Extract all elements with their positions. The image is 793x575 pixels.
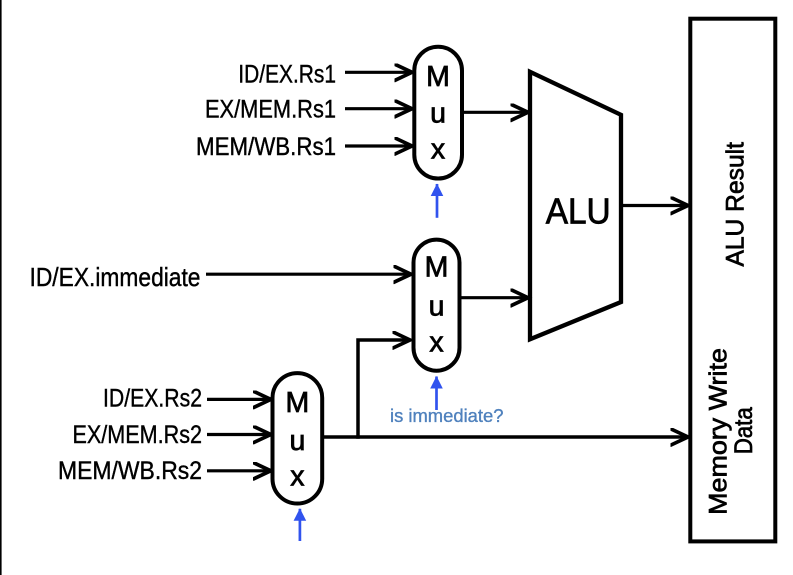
left edge border line <box>0 0 2 575</box>
svg-text:Data: Data <box>730 407 758 454</box>
svg-text:is immediate?: is immediate? <box>390 405 504 426</box>
svg-text:u: u <box>430 98 446 130</box>
wire arrow ID/EX.Rs2 to Mux3 <box>207 398 271 401</box>
svg-text:M: M <box>426 61 450 93</box>
svg-text:x: x <box>290 461 304 493</box>
wire arrow ID/EX.Rs1 to Mux1 <box>345 71 412 74</box>
svg-text:M: M <box>286 387 310 419</box>
svg-text:EX/MEM.Rs1: EX/MEM.Rs1 <box>205 96 336 124</box>
Mux2 (middle) <box>414 240 460 371</box>
svg-text:EX/MEM.Rs2: EX/MEM.Rs2 <box>73 421 203 449</box>
svg-text:ID/EX.Rs1: ID/EX.Rs1 <box>238 60 336 88</box>
svg-text:M: M <box>425 252 449 284</box>
svg-text:u: u <box>429 291 445 323</box>
svg-text:x: x <box>431 134 445 166</box>
blue select arrow under Mux3 <box>299 509 302 541</box>
ALU trapezoid <box>530 72 621 340</box>
wire arrow MEM/WB.Rs2 to Mux3 <box>207 469 271 472</box>
wire Mux3 output to memory write data <box>324 435 688 439</box>
wire arrow ALU to result register <box>623 204 688 207</box>
wire arrow MEM/WB.Rs1 to Mux1 <box>345 144 412 147</box>
svg-text:ID/EX.Rs2: ID/EX.Rs2 <box>103 385 202 413</box>
svg-text:ID/EX.immediate: ID/EX.immediate <box>30 262 201 292</box>
wire arrow EX/MEM.Rs1 to Mux1 <box>345 107 412 110</box>
Mux3 (bottom) <box>273 373 323 503</box>
svg-text:MEM/WB.Rs1: MEM/WB.Rs1 <box>196 133 336 161</box>
wire elbow from Mux3 output up to Mux2 input <box>358 340 410 439</box>
svg-text:MEM/WB.Rs2: MEM/WB.Rs2 <box>58 457 202 485</box>
wire arrow Mux1 to ALU <box>464 111 528 114</box>
blue select arrow under Mux2 <box>435 377 438 411</box>
wire arrow Mux2 to ALU <box>461 296 528 299</box>
wire arrow EX/MEM.Rs2 to Mux3 <box>207 433 271 436</box>
Mux1 (top) <box>414 47 462 179</box>
svg-text:ALU: ALU <box>546 191 611 232</box>
result/memory register rectangle <box>690 19 775 542</box>
svg-text:ALU Result: ALU Result <box>722 142 750 267</box>
svg-text:x: x <box>429 327 443 359</box>
svg-text:u: u <box>289 425 305 457</box>
wire arrow ID/EX.immediate to Mux2 <box>206 273 411 276</box>
svg-text:Memory Write: Memory Write <box>705 348 733 515</box>
blue select arrow under Mux1 <box>436 184 439 218</box>
